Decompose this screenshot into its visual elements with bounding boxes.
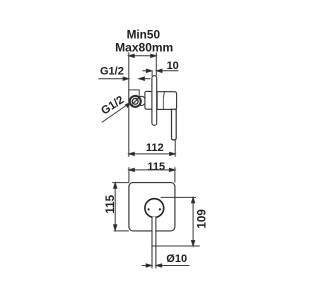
svg-text:115: 115 [147,161,165,173]
leader of lower G1/2 with arrow into ring [102,102,131,122]
handle cone lines [163,92,164,98]
109 bottom extension line [151,245,200,247]
dimension Ø10 arrows [142,264,190,267]
wall plate (escutcheon side profile) [152,76,157,126]
elbow width arrow (left-pointing) [139,77,150,80]
dimension 10 arrows [142,69,178,72]
wall extension line (left, long) [128,52,130,156]
lever lines (front view) [151,217,153,268]
square plate (front view) [129,183,175,231]
dimension 115 top [129,168,175,171]
svg-text:G1/2: G1/2 [100,66,124,78]
inlet elbow box behind ring [129,90,139,101]
dimension 112 [129,152,175,155]
leader of upper G1/2 with arrow to wall line [98,77,128,80]
handle body (side) [157,92,177,110]
lever (front view) white mask over square edge [153,217,156,246]
dimension 109 [192,197,195,246]
handle hub circle (front) [145,199,164,218]
dimension 115 left [114,183,117,231]
dimension Max80 arrow line [129,54,157,57]
lever (side view) [172,109,177,140]
G1/2 union ring (big, with inner circle) [130,96,141,107]
valve body cylinder [145,91,153,109]
plate edge extension above plate [151,71,153,76]
right extension line of 112 [174,140,176,157]
svg-text:112: 112 [146,142,164,154]
square plate extensions [112,182,129,184]
plate front extension line [155,52,157,76]
svg-text:Max80mm: Max80mm [115,40,173,54]
slash in ring [132,98,138,104]
screw dots [148,208,150,210]
union nut ring (second, right) [137,96,146,105]
svg-text:109: 109 [195,209,208,229]
109 top extension line [161,196,196,198]
svg-text:Ø10: Ø10 [166,253,187,265]
